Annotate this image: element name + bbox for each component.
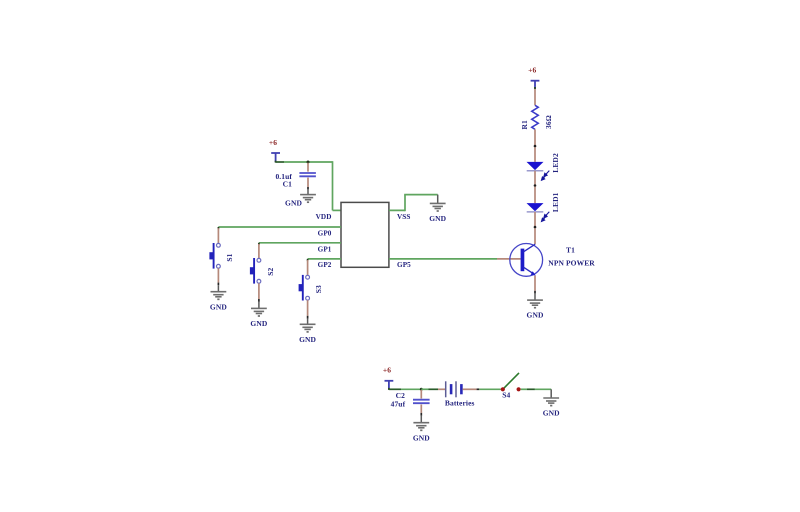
switch S4 bbox=[501, 373, 521, 399]
wire GP2 bbox=[308, 258, 341, 260]
power +6 P2 bbox=[528, 66, 539, 90]
svg-text:GP1: GP1 bbox=[318, 245, 332, 253]
battery BAT1 bbox=[445, 381, 475, 407]
pin bbox=[534, 276, 536, 291]
wire bbox=[332, 161, 334, 210]
wire bbox=[401, 388, 421, 390]
wire bbox=[307, 259, 309, 261]
svg-text:VSS: VSS bbox=[397, 213, 411, 221]
ground S4 bbox=[543, 389, 560, 417]
power +6 P3 bbox=[383, 366, 393, 390]
svg-text:S4: S4 bbox=[502, 390, 510, 399]
svg-text:GND: GND bbox=[299, 335, 316, 344]
svg-text:+6: +6 bbox=[269, 138, 277, 147]
wire bbox=[404, 195, 406, 212]
svg-text:Batteries: Batteries bbox=[445, 398, 475, 407]
power +6 P1 bbox=[269, 138, 280, 163]
svg-text:GP2: GP2 bbox=[318, 261, 332, 269]
ground S1 bbox=[210, 285, 227, 311]
pin bbox=[258, 244, 260, 258]
wire bbox=[217, 227, 219, 229]
wire bbox=[404, 194, 438, 196]
svg-text:VDD: VDD bbox=[316, 213, 332, 221]
svg-text:S1: S1 bbox=[225, 253, 234, 261]
capacitor C1 bbox=[275, 163, 315, 190]
pin bbox=[497, 258, 521, 260]
pin bbox=[463, 388, 477, 390]
pin bbox=[307, 260, 309, 275]
wire GP0 bbox=[218, 226, 341, 228]
resistor R1 bbox=[520, 105, 553, 129]
node bbox=[534, 145, 537, 148]
wire bbox=[479, 388, 501, 390]
pin bbox=[534, 171, 536, 185]
LED LED1 bbox=[527, 192, 561, 221]
capacitor C2 bbox=[391, 390, 430, 416]
LED LED2 bbox=[527, 153, 561, 180]
wire bbox=[535, 388, 551, 390]
svg-text:GND: GND bbox=[285, 198, 302, 207]
svg-text:47uf: 47uf bbox=[391, 399, 406, 408]
pin bbox=[258, 283, 260, 299]
wire bbox=[333, 209, 342, 211]
node C1 tap bbox=[307, 161, 310, 164]
ground VSS bbox=[429, 195, 446, 223]
wire bbox=[421, 388, 428, 390]
svg-text:NPN POWER: NPN POWER bbox=[548, 259, 595, 268]
svg-text:S3: S3 bbox=[314, 285, 323, 293]
pushbutton S2 bbox=[250, 258, 275, 284]
node bbox=[534, 226, 537, 229]
node C2 tap bbox=[420, 388, 423, 391]
wire bbox=[389, 388, 401, 390]
svg-text:T1: T1 bbox=[566, 245, 575, 254]
svg-text:GND: GND bbox=[543, 409, 560, 418]
IC U1 bbox=[316, 202, 412, 269]
svg-text:R1: R1 bbox=[520, 120, 529, 130]
svg-text:GND: GND bbox=[429, 214, 446, 223]
pin bbox=[438, 388, 445, 390]
ground T1 bbox=[527, 293, 544, 319]
wire bbox=[258, 243, 260, 245]
svg-text:GND: GND bbox=[527, 311, 544, 320]
ground S3 bbox=[299, 319, 316, 344]
wire bbox=[276, 161, 284, 163]
svg-text:S2: S2 bbox=[266, 267, 275, 275]
transistor T1 bbox=[510, 244, 596, 277]
svg-text:GND: GND bbox=[210, 302, 227, 311]
pin bbox=[534, 212, 536, 226]
ground C2 bbox=[413, 416, 430, 443]
ground S2 bbox=[250, 302, 267, 328]
svg-text:GP0: GP0 bbox=[318, 230, 332, 238]
svg-text:+6: +6 bbox=[528, 66, 536, 75]
pin bbox=[217, 268, 219, 282]
svg-text:C1: C1 bbox=[283, 180, 293, 189]
wire bbox=[284, 161, 333, 163]
pin bbox=[307, 300, 309, 316]
wire GP1 bbox=[259, 242, 341, 244]
pin bbox=[534, 89, 536, 105]
pushbutton S3 bbox=[299, 275, 323, 301]
wire GP5 bbox=[389, 258, 497, 260]
wire bbox=[429, 388, 439, 390]
pin bbox=[534, 129, 536, 145]
wire bbox=[389, 209, 405, 211]
node bbox=[534, 184, 537, 187]
wire bbox=[521, 388, 527, 390]
pushbutton S1 bbox=[209, 243, 233, 269]
svg-text:GP5: GP5 bbox=[397, 261, 411, 269]
svg-text:LED1: LED1 bbox=[551, 192, 560, 212]
svg-text:GND: GND bbox=[413, 433, 430, 442]
pin bbox=[527, 388, 535, 390]
svg-text:GND: GND bbox=[250, 319, 267, 328]
svg-text:+6: +6 bbox=[383, 366, 391, 375]
pin bbox=[534, 147, 536, 162]
ground C1 bbox=[285, 189, 316, 207]
svg-text:LED2: LED2 bbox=[551, 153, 560, 173]
pin bbox=[217, 228, 219, 243]
svg-text:36Ω: 36Ω bbox=[544, 115, 553, 129]
pin bbox=[534, 228, 536, 244]
pin bbox=[534, 187, 536, 204]
